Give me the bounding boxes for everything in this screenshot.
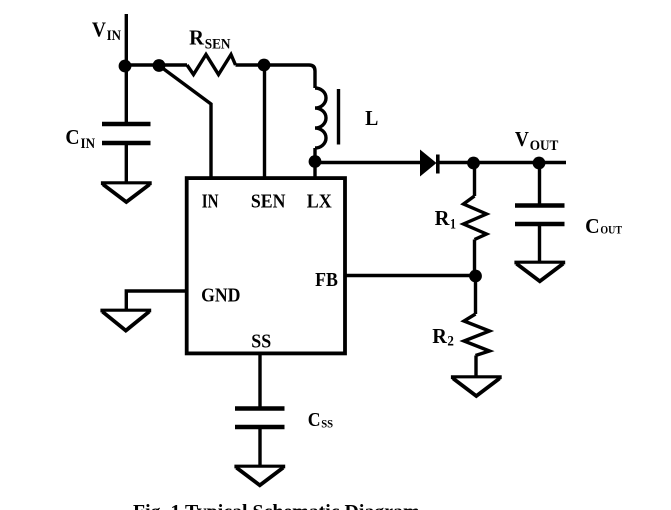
pin label GND bbox=[201, 284, 240, 306]
svg-text:FB: FB bbox=[315, 269, 338, 291]
node FB dot bbox=[469, 270, 482, 283]
capacitor CSS bbox=[235, 409, 285, 428]
node dot after diode bbox=[467, 157, 480, 170]
wire GND pin to ground bbox=[126, 291, 186, 312]
svg-text:V: V bbox=[515, 127, 529, 151]
wire CIN to ground bbox=[125, 143, 128, 185]
svg-text:R: R bbox=[189, 25, 205, 49]
ground R2 bbox=[451, 375, 502, 379]
label R2 bbox=[432, 324, 454, 350]
svg-text:SEN: SEN bbox=[251, 190, 286, 212]
wire COUT to ground bbox=[538, 224, 541, 264]
svg-text:2: 2 bbox=[447, 334, 454, 350]
wire R2 to ground bbox=[474, 356, 477, 379]
wire R1 to FB node bbox=[473, 240, 476, 277]
caption Fig 1 bbox=[133, 501, 420, 510]
pin label IN bbox=[202, 190, 219, 212]
label CSS bbox=[308, 409, 334, 431]
svg-text:C: C bbox=[65, 125, 79, 149]
svg-text:R: R bbox=[435, 206, 451, 230]
svg-text:C: C bbox=[308, 409, 321, 431]
resistor R2 bbox=[464, 314, 490, 356]
inductor L core bar bbox=[337, 89, 340, 145]
node junction dot 2 bbox=[153, 59, 166, 72]
ground GND bbox=[100, 309, 151, 313]
inductor L coil bbox=[315, 88, 326, 148]
wire LX to diode bbox=[315, 161, 420, 164]
capacitor CIN bbox=[102, 124, 151, 143]
svg-text:C: C bbox=[585, 214, 600, 238]
ground CSS bbox=[234, 465, 285, 469]
svg-text:IN: IN bbox=[202, 190, 219, 212]
wire coil to LX node bbox=[313, 148, 316, 178]
label VOUT bbox=[515, 127, 559, 154]
wire VOUT to COUT bbox=[538, 163, 541, 204]
label R1 bbox=[435, 206, 456, 232]
svg-text:IN: IN bbox=[107, 28, 122, 44]
svg-text:OUT: OUT bbox=[530, 138, 559, 154]
pin label SS bbox=[251, 331, 271, 353]
wire SEN pin bbox=[263, 65, 266, 178]
wire SS pin to CSS bbox=[258, 355, 261, 410]
wire FB node down to R2 bbox=[474, 276, 477, 314]
label RSEN bbox=[189, 25, 231, 52]
label L bbox=[365, 106, 378, 130]
label COUT bbox=[585, 214, 622, 238]
wire VOUT node down to R1 bbox=[473, 163, 476, 196]
node LX dot bbox=[309, 155, 322, 168]
wire FB to divider bbox=[345, 274, 476, 277]
diode D1 bbox=[420, 150, 437, 177]
pin label SEN bbox=[251, 190, 286, 212]
resistor R1 bbox=[464, 196, 487, 240]
wire diode to VOUT bbox=[439, 161, 566, 164]
svg-text:OUT: OUT bbox=[600, 223, 622, 237]
wire diagonal to IN pin bbox=[159, 66, 211, 179]
svg-text:1: 1 bbox=[450, 216, 456, 232]
svg-text:IN: IN bbox=[81, 136, 96, 152]
pin label LX bbox=[307, 190, 332, 212]
svg-text:SEN: SEN bbox=[205, 37, 231, 53]
capacitor COUT bbox=[515, 206, 565, 225]
svg-text:SS: SS bbox=[321, 417, 333, 431]
IC U1 box bbox=[187, 178, 345, 353]
node VOUT dot bbox=[533, 157, 546, 170]
label VIN bbox=[92, 17, 121, 44]
ground COUT bbox=[514, 261, 565, 265]
node junction dot 3 bbox=[258, 59, 271, 72]
node junction dot 1 bbox=[119, 60, 132, 73]
wire CSS to ground bbox=[258, 427, 261, 467]
svg-text:GND: GND bbox=[201, 284, 240, 306]
resistor RSEN bbox=[187, 55, 236, 75]
wire RSEN to inductor bbox=[236, 65, 316, 88]
label CIN bbox=[65, 125, 95, 152]
wire top horizontal bbox=[126, 63, 187, 66]
ground CIN bbox=[101, 181, 152, 185]
svg-text:L: L bbox=[365, 106, 378, 130]
svg-text:V: V bbox=[92, 17, 106, 41]
svg-text:LX: LX bbox=[307, 190, 332, 212]
svg-text:SS: SS bbox=[251, 331, 271, 353]
svg-text:R: R bbox=[432, 324, 447, 348]
svg-text:Fig. 1 Typical Schematic Diagr: Fig. 1 Typical Schematic Diagram bbox=[133, 501, 420, 510]
pin label FB bbox=[315, 269, 338, 291]
wire VIN vertical bbox=[125, 14, 128, 124]
